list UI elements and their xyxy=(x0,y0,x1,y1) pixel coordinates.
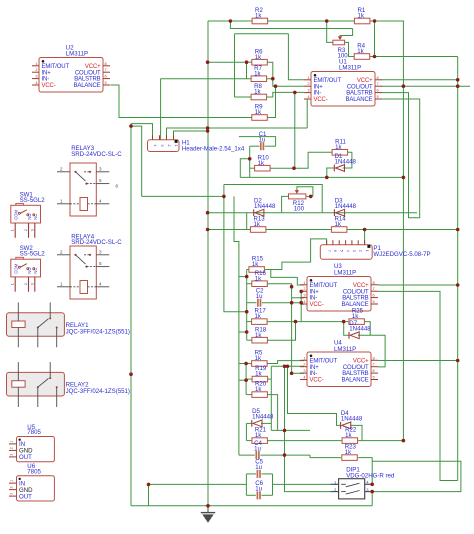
junction xyxy=(129,124,133,128)
svg-text:4: 4 xyxy=(303,375,306,380)
resistor R16 xyxy=(252,270,267,287)
junction xyxy=(206,60,210,64)
svg-text:LM311P: LM311P xyxy=(334,269,356,276)
wire C5 leads xyxy=(246,473,256,475)
svg-text:5: 5 xyxy=(340,250,344,252)
svg-text:IN+: IN+ xyxy=(310,289,320,295)
diode D4 xyxy=(341,410,363,429)
svg-text:COM: COM xyxy=(13,263,18,273)
svg-text:5: 5 xyxy=(377,94,379,99)
wire U4 group left rail xyxy=(245,364,247,395)
resistor R5 xyxy=(252,350,268,367)
wire ground stem xyxy=(207,506,209,513)
svg-text:VCC+: VCC+ xyxy=(353,283,369,289)
diode D7 xyxy=(349,320,371,339)
svg-text:1k: 1k xyxy=(258,160,265,167)
wire mid rail to DIP pin2 xyxy=(285,366,339,491)
svg-text:5: 5 xyxy=(373,375,375,380)
svg-text:7: 7 xyxy=(327,250,331,252)
junction xyxy=(229,19,233,23)
wire R23 output down to DIP pin4 xyxy=(358,458,372,485)
wire R15 output to U3 EMIT/OUT xyxy=(271,270,304,286)
wire stubs x238 to U4 rail xyxy=(239,363,246,365)
wire U1 BALSTRB down to D3 row xyxy=(382,93,409,213)
wire P1 pin7 riser xyxy=(364,230,366,245)
svg-text:1: 1 xyxy=(35,61,37,66)
wire U3 VCC+ to right rail xyxy=(378,284,458,286)
wire R6/R7 parallel tie xyxy=(246,62,248,78)
svg-text:VCC-: VCC- xyxy=(310,302,324,308)
junction xyxy=(373,19,377,23)
connector H1 Header-Male-2.54_1x4 xyxy=(148,135,245,152)
svg-text:7: 7 xyxy=(373,362,375,367)
svg-text:3: 3 xyxy=(10,493,14,495)
resistor R13 xyxy=(250,216,266,233)
svg-text:2: 2 xyxy=(10,486,14,488)
svg-text:1: 1 xyxy=(307,75,309,80)
trimmer resistor R12 xyxy=(289,194,306,199)
wire D2-D3 bus xyxy=(208,212,417,214)
svg-text:OUT: OUT xyxy=(19,493,32,500)
svg-text:2: 2 xyxy=(359,250,363,252)
diode D2 xyxy=(254,198,276,217)
svg-text:3: 3 xyxy=(303,293,305,298)
wire U1 VCC+ to right rail xyxy=(382,79,458,81)
svg-text:1k: 1k xyxy=(357,48,364,55)
wire U4 IN- wire xyxy=(292,372,304,374)
wire R5 bus xyxy=(246,363,252,365)
resistor R22 xyxy=(342,427,358,444)
wire U1 COL/OUT bus east xyxy=(382,85,471,87)
svg-text:2: 2 xyxy=(60,249,63,254)
svg-text:1k: 1k xyxy=(255,13,262,20)
svg-text:1k: 1k xyxy=(252,261,259,268)
resistor R8 xyxy=(251,83,267,100)
svg-text:COL/OUT: COL/OUT xyxy=(347,84,373,90)
svg-text:1: 1 xyxy=(11,229,15,231)
svg-text:BALANCE: BALANCE xyxy=(74,83,101,89)
junction xyxy=(283,429,287,433)
wire R7 node jog to U1 IN+ xyxy=(273,79,304,87)
junction xyxy=(290,285,294,289)
svg-text:EMIT/OUT: EMIT/OUT xyxy=(42,64,70,70)
wire C4-R23 bus jog xyxy=(310,455,341,458)
wire R12 wiper loop to right lead xyxy=(297,187,313,197)
svg-text:VCC+: VCC+ xyxy=(357,78,373,84)
capacitor C2 xyxy=(256,287,264,306)
wire C1 leads xyxy=(250,145,260,147)
svg-text:COM: COM xyxy=(13,210,18,220)
switch SW1 SS-5GL2 xyxy=(11,191,46,238)
wire R25 right rail to D7 xyxy=(365,322,370,336)
junction xyxy=(293,91,297,95)
svg-text:4: 4 xyxy=(99,281,102,286)
wire D1/R11 right rail xyxy=(343,152,352,168)
svg-text:VCC+: VCC+ xyxy=(85,64,101,70)
svg-text:VCC-: VCC- xyxy=(314,97,328,103)
svg-text:IN-: IN- xyxy=(42,77,50,83)
junction xyxy=(222,195,226,199)
svg-text:1k: 1k xyxy=(345,432,352,439)
junction xyxy=(292,166,296,170)
svg-text:VCC-: VCC- xyxy=(310,378,324,384)
svg-text:1N4448: 1N4448 xyxy=(341,416,363,423)
svg-text:VCC-: VCC- xyxy=(42,83,56,89)
junction xyxy=(370,483,374,487)
wire U1 BALANCE loop xyxy=(382,99,420,218)
junction xyxy=(244,362,248,366)
svg-text:1N4448: 1N4448 xyxy=(254,203,276,210)
wire U3 IN+ wire xyxy=(301,291,304,321)
junction xyxy=(245,60,249,64)
wire D2/R13 left rail xyxy=(246,213,248,230)
wire R8 input bus xyxy=(235,96,252,98)
wire main left rail x208 xyxy=(207,21,209,506)
svg-text:5: 5 xyxy=(99,178,102,183)
junction xyxy=(402,176,406,180)
svg-text:IN+: IN+ xyxy=(42,70,52,76)
op-amp U3 LM311P xyxy=(300,277,378,312)
resistor R10 xyxy=(255,154,271,171)
junction xyxy=(206,129,210,133)
resistor R15 xyxy=(249,256,265,273)
junction xyxy=(206,126,210,130)
junction xyxy=(402,84,406,88)
wire mid rail upper segment feeds R8 xyxy=(234,34,236,97)
connector P1 WJ2EDGVC-5.08-7P xyxy=(320,240,430,259)
svg-text:2: 2 xyxy=(24,229,28,231)
wire R10 row loop to D1 bus xyxy=(240,159,249,178)
svg-text:5: 5 xyxy=(373,299,375,304)
junction xyxy=(342,320,346,324)
wire caps to DIP pin1 xyxy=(273,483,339,485)
wire C6 leads xyxy=(246,494,256,496)
wire C4 row xyxy=(239,454,255,456)
wire left long rail xyxy=(130,124,132,506)
svg-text:8: 8 xyxy=(377,75,379,80)
wire R1 output vertical rail xyxy=(402,21,404,441)
junction xyxy=(456,228,460,232)
junction xyxy=(286,365,290,369)
junction xyxy=(456,359,460,363)
resistor R11 xyxy=(332,138,348,155)
wire D4 right rail to R22 xyxy=(350,425,362,440)
svg-text:1k: 1k xyxy=(255,371,262,378)
wire D5 bus xyxy=(246,422,251,424)
wire R3 wiper drop xyxy=(340,29,353,39)
voltage regulator U6 7805 xyxy=(9,463,54,501)
svg-text:3: 3 xyxy=(10,454,14,456)
junction xyxy=(283,365,287,369)
wire U2 BALANCE to R9 bus xyxy=(111,85,253,118)
svg-text:LM311P: LM311P xyxy=(66,51,88,58)
svg-text:1N4448: 1N4448 xyxy=(335,158,357,165)
svg-text:4: 4 xyxy=(153,145,157,147)
wire D5 node bus east xyxy=(271,429,310,431)
wire R12 right lead xyxy=(306,195,313,197)
wire mid rail lower segment xyxy=(234,196,239,455)
resistor R17 xyxy=(252,308,268,325)
wire R13-R14 bus xyxy=(208,229,458,231)
wire D1 bus xyxy=(240,176,403,178)
op-amp U2 LM311P xyxy=(32,58,110,93)
svg-text:1k: 1k xyxy=(357,13,364,20)
wire DIP right down to bottom bus xyxy=(371,492,373,506)
resistor R21 xyxy=(252,427,268,444)
svg-text:BALSTRB: BALSTRB xyxy=(342,371,368,377)
svg-text:LM311P: LM311P xyxy=(339,64,361,71)
resistor R14 xyxy=(331,216,347,233)
resistor R19 xyxy=(252,365,268,382)
svg-text:3: 3 xyxy=(352,250,356,252)
svg-text:7805: 7805 xyxy=(27,468,41,475)
svg-text:SRD-24VDC-SL-C: SRD-24VDC-SL-C xyxy=(71,151,122,158)
svg-text:1N4448: 1N4448 xyxy=(349,326,371,333)
svg-text:1k: 1k xyxy=(334,221,341,228)
svg-text:6: 6 xyxy=(373,368,375,373)
resistor R1 xyxy=(354,7,370,24)
svg-text:IN-: IN- xyxy=(314,91,322,97)
svg-text:1: 1 xyxy=(303,355,305,360)
svg-text:1: 1 xyxy=(303,280,305,285)
svg-text:1: 1 xyxy=(10,480,14,482)
wire R12 left leg to diode bus xyxy=(282,196,289,212)
trimmer resistor R3 xyxy=(333,40,345,45)
diode D3 xyxy=(334,198,356,217)
junction xyxy=(299,301,303,305)
svg-text:2: 2 xyxy=(24,283,28,285)
svg-text:2: 2 xyxy=(303,362,305,367)
junction xyxy=(294,320,298,324)
wire U3 VCC- tie to feedback rail xyxy=(301,303,304,305)
wire D5/R21 left rail xyxy=(245,423,247,440)
junction xyxy=(271,77,275,81)
svg-text:1k: 1k xyxy=(255,313,262,320)
svg-text:1u: 1u xyxy=(259,136,266,143)
junction xyxy=(299,290,303,294)
svg-text:3: 3 xyxy=(35,74,37,79)
wire R12 input bus xyxy=(142,195,224,197)
wire U4 IN+ bus xyxy=(271,365,304,367)
wire R21-R22 bus xyxy=(267,440,342,442)
wire ground bus xyxy=(131,505,372,507)
wire U3 COL/OUT big loop xyxy=(378,291,458,480)
svg-text:1u: 1u xyxy=(255,486,262,493)
svg-text:WJ2EDGVC-5.08-7P: WJ2EDGVC-5.08-7P xyxy=(373,251,430,258)
wire R15 output to P1 pin1 xyxy=(265,239,327,270)
wire D1 left leg xyxy=(327,168,335,177)
svg-text:1k: 1k xyxy=(255,275,262,282)
wire C5/C6 right rail xyxy=(272,474,274,495)
wire header pin2 riser xyxy=(160,79,162,140)
svg-text:EMIT/OUT: EMIT/OUT xyxy=(310,283,338,289)
svg-text:8: 8 xyxy=(373,280,375,285)
svg-text:IN+: IN+ xyxy=(314,84,324,90)
op-amp U1 LM311P xyxy=(304,72,382,107)
wire R19 output rail xyxy=(270,366,272,430)
svg-text:1k: 1k xyxy=(255,332,262,339)
svg-text:3: 3 xyxy=(307,88,309,93)
svg-text:BALSTRB: BALSTRB xyxy=(346,91,372,97)
svg-text:6: 6 xyxy=(377,88,379,93)
svg-text:EMIT/OUT: EMIT/OUT xyxy=(314,78,342,84)
wire C1 right bus xyxy=(239,137,276,147)
wire right rail vertical xyxy=(457,57,459,481)
svg-text:LM311P: LM311P xyxy=(334,346,356,353)
wire R10 node up to R11 left xyxy=(295,152,333,168)
svg-text:1: 1 xyxy=(11,283,15,285)
wire R17/R18 right rail xyxy=(267,322,296,341)
wire R2-R1 top bus xyxy=(208,20,404,22)
capacitor C6 xyxy=(255,480,263,499)
wire R3 left feed from top bus xyxy=(327,21,333,42)
svg-text:4: 4 xyxy=(346,250,350,252)
wire U4 VCC+ to right rail xyxy=(378,360,458,362)
svg-text:3: 3 xyxy=(99,249,102,254)
svg-text:1k: 1k xyxy=(254,70,261,77)
wire R22 output to rail xyxy=(358,440,403,442)
svg-text:1k: 1k xyxy=(255,386,262,393)
wire C5/C6 left rail xyxy=(245,474,247,495)
svg-text:1: 1 xyxy=(60,198,63,203)
junction xyxy=(456,78,460,82)
svg-text:4: 4 xyxy=(35,80,38,85)
junction xyxy=(456,283,460,287)
ground xyxy=(201,513,215,523)
svg-text:1: 1 xyxy=(365,250,369,252)
wire D7 output to U4 COL/OUT xyxy=(358,335,385,367)
resistor R20 xyxy=(252,381,268,398)
wire U1 VCC- down to header bus xyxy=(304,99,307,128)
wire bus 184.5 to diode bus xyxy=(224,185,322,213)
resistor R18 xyxy=(252,326,268,343)
svg-text:Header-Male-2.54_1x4: Header-Male-2.54_1x4 xyxy=(182,146,245,153)
svg-text:BALANCE: BALANCE xyxy=(342,378,369,384)
wire relay-column feed xyxy=(131,126,142,196)
svg-text:1k: 1k xyxy=(345,449,352,456)
wire branch down to R17 bus xyxy=(224,185,247,312)
relay RELAY4 SRD-24VDC-SL-C xyxy=(57,234,122,300)
svg-text:1: 1 xyxy=(174,145,178,147)
svg-text:6: 6 xyxy=(373,293,375,298)
wire R16 output rail down to U4 IN- xyxy=(266,284,292,374)
svg-text:3: 3 xyxy=(303,368,305,373)
junction xyxy=(245,310,249,314)
wire header pin4 bus to left rail xyxy=(174,131,208,140)
svg-text:3: 3 xyxy=(30,283,34,285)
svg-text:7: 7 xyxy=(373,286,375,291)
wire R3 right to R4 left xyxy=(345,42,354,56)
svg-text:2: 2 xyxy=(10,447,14,449)
svg-text:SS-5GL2: SS-5GL2 xyxy=(20,197,46,204)
svg-text:OUT: OUT xyxy=(19,454,32,461)
svg-text:1u: 1u xyxy=(256,293,263,300)
junction xyxy=(325,19,329,23)
svg-text:1k: 1k xyxy=(255,432,262,439)
svg-text:5: 5 xyxy=(105,80,107,85)
relay RELAY2 JQC-3FF/024-1ZS(551) xyxy=(7,362,130,407)
svg-text:IN+: IN+ xyxy=(310,365,320,371)
wire header pin1 riser xyxy=(131,124,153,140)
junction xyxy=(325,176,329,180)
junction xyxy=(274,84,278,88)
wire R8 output jog to U1 IN- xyxy=(266,92,304,97)
svg-text:1k: 1k xyxy=(255,109,262,116)
svg-text:1u: 1u xyxy=(254,445,261,452)
svg-text:1: 1 xyxy=(334,481,336,485)
svg-text:BALANCE: BALANCE xyxy=(346,97,373,103)
junction xyxy=(283,453,287,457)
junction xyxy=(363,228,367,232)
wire R5 output to U4 EMIT/OUT xyxy=(267,361,304,364)
svg-text:2: 2 xyxy=(60,166,63,171)
junction xyxy=(129,372,133,376)
svg-text:BALSTRB: BALSTRB xyxy=(342,296,368,302)
wire R6 input bus xyxy=(208,61,245,63)
capacitor C5 xyxy=(255,459,263,478)
resistor R25 xyxy=(349,308,365,325)
svg-text:2: 2 xyxy=(167,145,171,147)
svg-text:3: 3 xyxy=(366,488,368,492)
junction xyxy=(244,378,248,382)
wire U3 IN- wire xyxy=(292,297,304,299)
resistor R9 xyxy=(252,104,267,121)
junction xyxy=(147,483,151,487)
svg-text:1: 1 xyxy=(60,281,63,286)
svg-text:IN-: IN- xyxy=(310,371,318,377)
svg-text:SRD-24VDC-SL-C: SRD-24VDC-SL-C xyxy=(71,239,122,246)
wire rail x287 to D4 xyxy=(288,366,341,425)
switch SW2 SS-5GL2 xyxy=(11,245,46,292)
svg-text:COL/OUT: COL/OUT xyxy=(343,289,369,295)
wire mid-rail top bus y33.8 xyxy=(235,33,289,35)
junction xyxy=(206,211,210,215)
svg-text:3: 3 xyxy=(99,166,102,171)
resistor R4 xyxy=(354,43,370,60)
voltage regulator U5 7805 xyxy=(9,424,54,462)
wire stubs from x238 rail xyxy=(239,276,247,278)
wire R4 right bus to right rail xyxy=(370,56,458,58)
svg-text:COL/OUT: COL/OUT xyxy=(75,70,101,76)
svg-text:8: 8 xyxy=(373,355,375,360)
svg-text:4: 4 xyxy=(99,198,102,203)
svg-text:1k: 1k xyxy=(255,54,262,61)
svg-text:3: 3 xyxy=(160,145,164,147)
wire EMIT/OUT riser xyxy=(288,34,304,80)
svg-text:4: 4 xyxy=(366,481,368,485)
svg-text:1k: 1k xyxy=(335,144,342,151)
resistor R23 xyxy=(342,444,358,461)
wire U3 group left rail xyxy=(246,270,248,341)
wire R20 output down xyxy=(267,395,278,431)
relay RELAY3 SRD-24VDC-SL-C xyxy=(57,145,122,216)
wire bottom bus into caps xyxy=(149,483,247,485)
junction xyxy=(370,490,374,494)
wire C2 bus xyxy=(247,302,257,304)
junction xyxy=(206,504,210,508)
wire R2 branch bus y28.5 xyxy=(230,21,352,29)
wire R9 output rise to IN+ node xyxy=(267,86,276,117)
svg-text:1k: 1k xyxy=(254,89,261,96)
junction xyxy=(456,84,460,88)
svg-text:4: 4 xyxy=(307,94,310,99)
svg-text:1k: 1k xyxy=(255,355,262,362)
junction xyxy=(309,195,313,199)
junction xyxy=(206,228,210,232)
junction xyxy=(290,301,294,305)
resistor R6 xyxy=(252,48,267,65)
diode D5 xyxy=(252,408,274,427)
